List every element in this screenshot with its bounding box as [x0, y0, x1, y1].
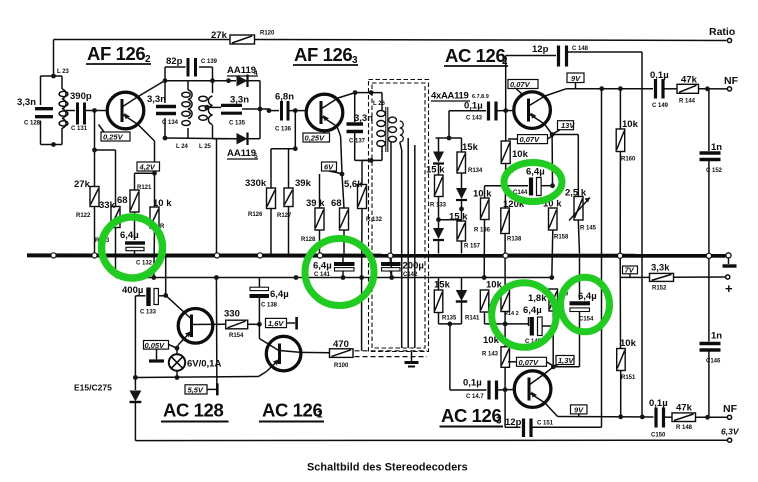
wire L26 top feed	[355, 93, 382, 161]
meter 1,3V box T7	[554, 356, 574, 367]
svg-text:6,4µ: 6,4µ	[523, 305, 542, 316]
wire T1 base bias column	[94, 111, 96, 254]
dashed filter box	[369, 80, 429, 352]
svg-text:5,5V: 5,5V	[188, 386, 204, 395]
node T7 base	[503, 387, 508, 392]
svg-text:6,4µ: 6,4µ	[526, 167, 545, 178]
inductor L24	[176, 90, 192, 150]
lamp 6V 0,1A	[169, 348, 222, 377]
svg-text:68: 68	[117, 195, 128, 206]
meter 0,07V box T3	[508, 80, 538, 96]
label AC126_3	[440, 405, 504, 427]
svg-text:C 14.7: C 14.7	[466, 394, 484, 400]
diode D9	[456, 278, 480, 324]
resistor R145 2,5k variable	[552, 135, 597, 254]
wire 4,2V node branch	[135, 173, 155, 277]
transistor T1 AF126_2	[107, 81, 165, 163]
label AF126_3	[293, 44, 358, 66]
svg-text:C 138: C 138	[261, 303, 278, 309]
resistor R134	[457, 138, 483, 188]
capacitor C141 6,4u	[313, 258, 355, 279]
node lower rail x361	[359, 275, 364, 280]
capacitor C143 0,1u	[449, 101, 514, 122]
label AC126_2	[444, 45, 508, 67]
diode D6	[433, 138, 444, 175]
svg-text:AF 126: AF 126	[294, 44, 352, 65]
svg-text:C 152: C 152	[706, 168, 723, 174]
node crossing bus x53	[51, 253, 56, 258]
svg-text:0,1µ: 0,1µ	[464, 101, 483, 112]
capacitor C154 6,4u	[553, 258, 596, 367]
svg-text:R141: R141	[465, 316, 480, 322]
resistor R144 47k	[677, 75, 728, 105]
svg-text:0,25V: 0,25V	[305, 134, 326, 143]
svg-text:33k: 33k	[99, 200, 116, 211]
node C144 right	[550, 183, 555, 188]
svg-text:15k: 15k	[462, 142, 479, 153]
svg-text:1,3V: 1,3V	[558, 356, 574, 365]
node crossing bus x218	[214, 253, 219, 258]
resistor R136 10k	[473, 186, 492, 278]
node x620 lower	[618, 414, 623, 419]
node T5 emitter	[175, 346, 180, 351]
node lower rail x484	[482, 275, 487, 280]
node NF lower	[705, 415, 710, 420]
node T3 base	[503, 108, 508, 113]
svg-text:390p: 390p	[70, 91, 92, 102]
meter 7V box	[623, 266, 638, 278]
node crossing bus x94	[92, 253, 97, 258]
capacitor C147 0,1u	[463, 378, 514, 401]
svg-text:15 k: 15 k	[426, 165, 445, 176]
svg-text:R122: R122	[76, 213, 91, 219]
svg-text:C 134: C 134	[162, 120, 179, 126]
node x602	[599, 86, 604, 91]
svg-text:39k: 39k	[295, 178, 312, 189]
wire emitter col x552	[552, 135, 553, 278]
inductor L23	[57, 69, 70, 128]
resistor R126	[245, 178, 276, 218]
svg-text:200µ: 200µ	[403, 261, 424, 272]
svg-text:1: 1	[317, 410, 323, 421]
svg-text:6,4µ: 6,4µ	[270, 289, 289, 300]
highlight ring E	[561, 277, 610, 332]
meter 0,05V box + ground	[144, 341, 178, 362]
svg-text:10k: 10k	[620, 338, 637, 349]
svg-text:82p: 82p	[166, 56, 183, 67]
highlight ring B	[305, 239, 374, 306]
svg-text:12p: 12p	[532, 44, 549, 55]
svg-text:C 136: C 136	[275, 127, 292, 133]
resistor R158 10k	[543, 199, 569, 241]
capacitor C135	[204, 95, 260, 127]
node C136 branch	[267, 108, 272, 113]
svg-text:AC 126: AC 126	[262, 400, 322, 421]
resistor R128	[301, 174, 325, 254]
svg-text:R152: R152	[652, 286, 667, 292]
node crossing bus x620	[618, 253, 623, 258]
bus main thick line	[27, 253, 726, 257]
transistor T7 AC126_3	[514, 367, 557, 417]
meter 0,07V box T3e	[508, 135, 552, 145]
node E15 top	[133, 375, 138, 380]
node R133 bottom	[436, 217, 441, 222]
svg-text:C 128: C 128	[24, 121, 41, 127]
svg-text:9V: 9V	[571, 74, 581, 83]
inductor L25	[199, 96, 213, 150]
node NF top	[705, 86, 710, 91]
svg-text:0,07V: 0,07V	[520, 135, 541, 144]
svg-text:R151: R151	[621, 375, 636, 381]
svg-text:1,8k: 1,8k	[528, 293, 547, 304]
capacitor C151 12p	[505, 89, 602, 437]
wire C133 left branch	[134, 296, 136, 390]
svg-text:1n: 1n	[711, 142, 722, 153]
terminal NF top	[724, 75, 739, 91]
capacitor C139 82p	[165, 56, 218, 81]
meter 6V box	[322, 162, 343, 174]
node emitter col T2	[340, 172, 345, 177]
svg-text:3,3n: 3,3n	[354, 113, 373, 124]
terminal NF lower	[723, 403, 738, 419]
svg-text:C 131: C 131	[71, 126, 88, 132]
capacitor C134	[147, 94, 179, 126]
svg-text:27k: 27k	[211, 30, 228, 41]
node tank1 bottom	[51, 142, 56, 147]
svg-text:L 26: L 26	[373, 101, 386, 107]
capacitor C128	[17, 97, 53, 127]
svg-text:470: 470	[333, 339, 349, 350]
wire NF lower rail	[558, 416, 654, 419]
svg-text:R158: R158	[554, 235, 569, 241]
svg-text:NF: NF	[723, 403, 738, 415]
svg-text:0,1µ: 0,1µ	[649, 398, 668, 409]
wire tank2 top	[165, 81, 236, 138]
svg-text:5,6k: 5,6k	[344, 179, 363, 190]
svg-text:15k: 15k	[434, 280, 451, 291]
svg-text:6.7.8.9: 6.7.8.9	[472, 94, 489, 100]
svg-text:C154: C154	[579, 317, 594, 323]
node diode feed	[447, 136, 452, 141]
meter 9V box T7	[571, 405, 588, 417]
svg-text:R100: R100	[334, 363, 349, 369]
resistor R120	[211, 30, 275, 44]
svg-text:C 132: C 132	[136, 261, 153, 267]
svg-text:6,4µ: 6,4µ	[578, 291, 597, 302]
wire diode rail	[260, 81, 279, 139]
svg-text:R160: R160	[621, 157, 636, 163]
node lower rail x153	[151, 275, 156, 280]
resistor R132 5,6k	[344, 160, 383, 277]
svg-text:C 148: C 148	[572, 46, 589, 52]
wire rail-to-C133	[165, 258, 167, 296]
node A base T1	[92, 108, 97, 113]
node diode rail mid	[258, 107, 263, 112]
resistor R143 10k	[482, 335, 510, 427]
svg-text:R 143: R 143	[482, 352, 499, 358]
svg-text:6,4µ: 6,4µ	[120, 230, 139, 241]
svg-text:AC 126: AC 126	[445, 45, 505, 66]
capacitor C142 200u	[381, 258, 424, 279]
svg-text:C150: C150	[651, 433, 666, 439]
wire C131 to T1 base	[85, 110, 108, 112]
capacitor C148 12p	[506, 44, 642, 417]
svg-text:68: 68	[331, 198, 342, 209]
svg-text:400µ: 400µ	[122, 285, 143, 296]
svg-text:12p: 12p	[505, 417, 522, 428]
diode D7	[433, 228, 444, 254]
svg-text:13V: 13V	[561, 121, 575, 130]
capacitor C137 3,3n	[347, 93, 383, 161]
diode AA119_5	[213, 133, 261, 161]
svg-text:47k: 47k	[681, 75, 698, 86]
svg-text:AC 128: AC 128	[163, 400, 223, 421]
node lower rail x391	[389, 275, 394, 280]
svg-text:R120: R120	[260, 31, 275, 37]
wire audio takeoff	[439, 324, 487, 390]
node T7 collector	[551, 364, 556, 369]
capacitor C152 1n	[700, 89, 723, 254]
svg-text:AA119: AA119	[227, 65, 256, 76]
svg-text:0,05V: 0,05V	[145, 341, 166, 350]
resistor R138 120k	[501, 199, 525, 254]
capacitor C144 6,4u	[485, 167, 553, 197]
svg-text:0,1µ: 0,1µ	[463, 378, 482, 389]
svg-text:1,6V: 1,6V	[268, 319, 284, 328]
highlight ring D	[492, 283, 557, 348]
label 4xAA119	[431, 91, 489, 102]
wire top rail to Ratio	[54, 40, 727, 76]
svg-text:0,07V: 0,07V	[519, 358, 540, 367]
svg-text:4,2V: 4,2V	[139, 163, 156, 172]
resistor R148 47k	[672, 403, 728, 432]
svg-text:R121: R121	[137, 185, 152, 191]
transistor T6 AC126_1	[259, 324, 301, 376]
node lower rail x343	[341, 275, 346, 280]
node tank2 right top	[210, 78, 215, 83]
svg-text:7V: 7V	[625, 266, 635, 275]
node C133 right	[163, 293, 168, 298]
node C137 bottom	[369, 158, 374, 163]
resistor R100 470	[301, 339, 353, 369]
node audio takeoff	[448, 322, 453, 327]
svg-text:R 136: R 136	[474, 228, 491, 234]
svg-text:R126: R126	[248, 212, 263, 218]
label AF126_2	[86, 43, 151, 65]
svg-text:10 k: 10 k	[153, 198, 172, 209]
node base divider	[92, 148, 97, 153]
svg-text:Schaltbild des Stereodecoders: Schaltbild des Stereodecoders	[307, 462, 468, 474]
label AC128	[161, 400, 229, 422]
diode E15/C275	[74, 383, 141, 441]
svg-text:R154: R154	[229, 333, 244, 339]
svg-text:R135: R135	[442, 316, 457, 322]
capacitor C150 0,1u	[649, 398, 672, 439]
wire C143 down to diodes	[436, 111, 462, 138]
node crossing bus x390	[388, 253, 393, 258]
resistor R152 3,3k	[620, 263, 725, 292]
svg-text:9V: 9V	[574, 405, 584, 414]
capacitor C149 0,1u	[650, 70, 677, 109]
capacitor C136 6,8n	[275, 92, 307, 133]
svg-text:3,3n: 3,3n	[230, 95, 249, 106]
node crossing bus x260	[257, 253, 262, 258]
svg-text:L 25: L 25	[199, 144, 212, 150]
resistor R141 10k	[480, 280, 505, 324]
svg-text:R 144: R 144	[679, 99, 696, 105]
transistor T5 AC128	[166, 295, 226, 348]
node tank1 top	[51, 74, 56, 79]
resistor R121	[117, 185, 152, 212]
svg-text:C 139: C 139	[201, 59, 218, 65]
svg-text:330k: 330k	[245, 178, 267, 189]
wire dashed link R100 to filter	[355, 351, 428, 357]
node lower rail x552	[549, 275, 554, 280]
wire cross diode cols	[439, 219, 462, 221]
terminal bus end	[726, 253, 731, 258]
wire tank2 bottom	[165, 125, 236, 254]
svg-text:L 24: L 24	[176, 144, 189, 150]
node crossing bus x709	[706, 253, 711, 258]
svg-text:C 135: C 135	[229, 121, 246, 127]
svg-text:6,4µ: 6,4µ	[313, 261, 332, 272]
node crossing bus x506	[503, 253, 508, 258]
node tank2 left top	[163, 78, 168, 83]
node diode rail top	[226, 78, 231, 83]
svg-text:39 k: 39 k	[306, 198, 325, 209]
svg-text:C142: C142	[403, 272, 418, 278]
capacitor C145 6,4u	[505, 305, 553, 345]
svg-text:3,3k: 3,3k	[651, 263, 670, 274]
terminal Ratio	[709, 26, 735, 43]
svg-text:6,3V: 6,3V	[721, 427, 740, 437]
meter 4,2V box	[137, 162, 160, 176]
svg-text:C 151: C 151	[537, 421, 554, 427]
svg-text:AC 126: AC 126	[441, 405, 501, 426]
transformer L26	[373, 101, 403, 152]
svg-text:330: 330	[224, 309, 240, 320]
svg-text:R127: R127	[277, 213, 292, 219]
svg-text:1n: 1n	[711, 331, 722, 342]
wire divider branch	[95, 150, 116, 278]
meter 0,25V box T1	[99, 125, 131, 142]
highlight ring C	[504, 163, 562, 202]
svg-text:3,3n: 3,3n	[147, 94, 166, 105]
resistor R129 68	[331, 174, 349, 254]
diode D8	[456, 188, 467, 221]
svg-text:10 k: 10 k	[473, 189, 492, 200]
resistor R122	[74, 179, 99, 219]
svg-text:C 141: C 141	[314, 272, 331, 278]
resistor R124 10k	[150, 198, 172, 230]
svg-text:R 148: R 148	[676, 425, 693, 431]
wire bottom rail 6,3V	[135, 427, 739, 443]
node lower rail x216	[214, 275, 219, 280]
resistor R151 10k	[617, 258, 637, 417]
svg-text:E15/C275: E15/C275	[74, 383, 112, 393]
meter 0,25V box T2	[303, 133, 330, 143]
wire tank1 tap to C131	[66, 110, 75, 112]
resistor R142 10k	[501, 258, 519, 347]
node T2 base	[293, 108, 298, 113]
svg-text:R134: R134	[468, 168, 483, 174]
svg-text:NF: NF	[724, 75, 739, 87]
capacitor C131	[70, 91, 92, 132]
svg-text:R128: R128	[301, 237, 316, 243]
svg-text:R14 2: R14 2	[504, 311, 519, 317]
capacitor C132 electrolytic	[120, 230, 153, 267]
transistor T2 AF126_3	[306, 93, 355, 174]
resistor R160 10k	[616, 89, 638, 253]
wire emitter rail y377	[135, 377, 258, 378]
svg-text:3,3n: 3,3n	[17, 97, 36, 108]
meter 9V box T3	[567, 73, 584, 89]
node crossing bus x320	[317, 253, 322, 258]
svg-text:C 137: C 137	[349, 139, 366, 145]
wire collector rail 9V	[566, 88, 653, 90]
node x620	[618, 86, 623, 91]
svg-text:27k: 27k	[74, 179, 91, 190]
node lower rail x296	[294, 275, 299, 280]
svg-text:R 145: R 145	[580, 226, 597, 232]
svg-text:L 23: L 23	[57, 69, 70, 75]
capacitor C138 6,4u	[250, 278, 289, 325]
svg-text:C 143: C 143	[466, 116, 483, 122]
resistor R133	[426, 165, 447, 229]
node R154 right	[257, 322, 262, 327]
wire R132 tail	[361, 278, 363, 351]
wire filter pins	[391, 138, 415, 348]
label AC126_1	[259, 400, 324, 422]
svg-text:3: 3	[496, 416, 502, 427]
wire T5 base supply col	[215, 278, 218, 390]
wire T2 base bias	[271, 111, 295, 254]
svg-text:AA119: AA119	[227, 148, 256, 159]
svg-text:0,07V: 0,07V	[510, 80, 531, 89]
wire tank1 frame	[41, 76, 63, 145]
svg-text:6,8n: 6,8n	[275, 92, 294, 103]
transistor T3 AC126_2	[514, 89, 567, 135]
meter 0,07V box T7	[508, 357, 553, 367]
resistor R157	[449, 212, 481, 254]
wire C145 col down	[552, 326, 554, 367]
meter 13V box	[553, 121, 575, 134]
node L26 feed	[369, 90, 374, 95]
node lamp bottom	[175, 375, 180, 380]
svg-text:0,1µ: 0,1µ	[650, 70, 669, 81]
highlight ring A	[102, 217, 163, 278]
ground filter box	[405, 352, 419, 367]
svg-text:2,5 k: 2,5 k	[565, 188, 587, 199]
resistor R139 1,8k	[528, 289, 558, 326]
node T2 divider	[293, 146, 298, 151]
node x642 lower	[640, 415, 645, 420]
node R142 bottom	[503, 322, 508, 327]
svg-text:6V: 6V	[324, 163, 334, 172]
svg-text:10k: 10k	[622, 119, 639, 130]
meter 1,6V box	[266, 317, 297, 330]
diode AA119_4	[227, 65, 260, 87]
svg-text:4xAA119: 4xAA119	[431, 91, 469, 102]
resistor R127	[277, 178, 312, 219]
resistor R135 15k	[434, 278, 457, 324]
resistor R154 330	[224, 309, 259, 340]
meter 5,5V box	[185, 383, 217, 395]
svg-text:+: +	[725, 281, 733, 296]
resistor R123	[95, 200, 120, 244]
resistor R137 10k	[501, 111, 528, 208]
node T3 emitter	[550, 132, 555, 137]
